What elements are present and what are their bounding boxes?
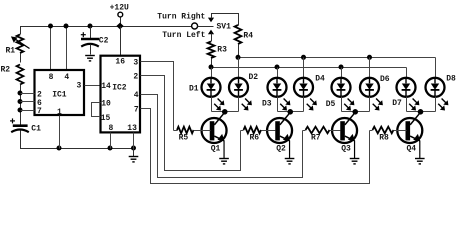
- svg-text:2: 2: [133, 72, 138, 81]
- op-amp IC1 timer box: [35, 70, 85, 115]
- node D4 label: [315, 75, 325, 84]
- node collector junction Q2: [287, 109, 293, 115]
- node D7 label: [392, 99, 402, 108]
- LED D7: [397, 78, 420, 111]
- node D3 label: [262, 100, 272, 109]
- svg-text:3: 3: [77, 82, 82, 91]
- resistor R8: [370, 127, 407, 143]
- svg-text:8: 8: [109, 124, 114, 133]
- svg-text:Turn Right: Turn Right: [157, 12, 205, 21]
- wire IC2 pin2 to R6: [141, 76, 241, 171]
- svg-text:C2: C2: [99, 37, 109, 46]
- svg-text:Q3: Q3: [341, 144, 351, 153]
- wire LED D3 cathode stub: [277, 97, 279, 112]
- node Turn Right label: [157, 12, 205, 21]
- switch SV1: [192, 14, 232, 42]
- svg-text:7: 7: [134, 105, 139, 114]
- wire D3-D4 cathode link: [278, 111, 304, 113]
- wire IC1 pin1 to ground rail: [59, 116, 61, 149]
- wire LED D2 anode stub: [238, 58, 240, 78]
- wire IC1 pin3 to IC2 pin14: [85, 85, 101, 87]
- pin labels IC2: [101, 57, 139, 133]
- wire LED D1 cathode stub: [211, 97, 213, 112]
- wire LED D8 anode stub: [435, 58, 437, 78]
- resistor R6: [241, 127, 276, 143]
- svg-text:R8: R8: [379, 133, 389, 142]
- svg-text:IC1: IC1: [52, 90, 67, 99]
- pin labels IC1: [37, 73, 82, 117]
- LED D5: [332, 78, 355, 111]
- node D6 label: [380, 75, 390, 84]
- wire R1 to R2: [20, 54, 22, 63]
- wire IC1 pin2 stub: [21, 93, 35, 95]
- svg-text:D3: D3: [262, 100, 272, 109]
- resistor R7: [303, 127, 341, 143]
- svg-text:D1: D1: [189, 84, 199, 93]
- wire D1-D2 cathode link: [212, 111, 239, 113]
- wire left-turn bus: [212, 67, 407, 69]
- svg-text:Q4: Q4: [407, 144, 417, 153]
- svg-text:D4: D4: [315, 75, 325, 84]
- wire LED D6 cathode stub: [369, 97, 371, 112]
- capacitor C2: [81, 27, 109, 47]
- resistor R4: [235, 25, 254, 44]
- wire D5-D6 cathode link: [342, 111, 370, 113]
- svg-text:4: 4: [64, 73, 69, 82]
- LED D4: [294, 78, 317, 111]
- wire LED D7 cathode stub: [406, 97, 408, 112]
- transistor Q4: [397, 112, 422, 158]
- ground under Q1: [219, 159, 229, 164]
- node pins 2-6-7 junction dots: [18, 91, 23, 113]
- wire LED D3 anode stub: [277, 68, 279, 78]
- svg-text:R5: R5: [179, 133, 189, 142]
- svg-text:14: 14: [101, 82, 111, 91]
- wire LED D5 anode stub: [341, 68, 343, 78]
- wire R4 to right bus: [238, 45, 240, 58]
- wire IC2 pins 10-15 jumper: [92, 103, 101, 117]
- svg-text:15: 15: [101, 114, 111, 123]
- svg-text:D6: D6: [380, 75, 390, 84]
- wire LED D4 cathode stub: [303, 97, 305, 112]
- ground under C2: [85, 45, 95, 61]
- svg-text:C1: C1: [31, 124, 41, 133]
- wire IC2 pin13 to ground rail: [133, 133, 135, 149]
- node collector junction Q1: [222, 109, 228, 115]
- svg-text:+12U: +12U: [110, 4, 129, 13]
- node left bus dots: [209, 65, 344, 70]
- wire LED D1 anode stub: [211, 68, 213, 78]
- node rail dots: [48, 24, 93, 29]
- svg-text:R2: R2: [1, 66, 11, 75]
- svg-text:Q2: Q2: [276, 144, 286, 153]
- wire LED D6 anode stub: [369, 58, 371, 78]
- op-amp IC2 counter box: [101, 56, 141, 133]
- wire IC1 pin4 to rail: [66, 27, 68, 71]
- transistor Q2: [267, 112, 292, 158]
- svg-text:D7: D7: [392, 99, 402, 108]
- svg-text:R1: R1: [6, 47, 16, 56]
- wire IC2 pin3 to R5: [141, 62, 174, 131]
- node collector junction Q4: [418, 109, 424, 115]
- transistor Q3: [332, 112, 357, 158]
- node +12V terminal: [110, 4, 129, 30]
- node D5 label: [326, 100, 336, 109]
- wire switch top throw to R4: [212, 14, 239, 26]
- wire LED D8 cathode stub: [435, 97, 437, 112]
- LED D6: [360, 78, 383, 111]
- svg-text:R6: R6: [250, 133, 260, 142]
- transistor Q1: [202, 112, 227, 158]
- svg-text:R3: R3: [217, 45, 227, 54]
- wire LED D2 cathode stub: [238, 97, 240, 112]
- wire IC1 pin7 stub: [21, 110, 35, 112]
- svg-text:D2: D2: [249, 73, 259, 82]
- svg-text:Turn Left: Turn Left: [162, 31, 205, 40]
- wire LED D5 cathode stub: [341, 97, 343, 112]
- wire IC2 pin8 to ground rail: [110, 133, 112, 149]
- wire IC2 pin16 to rail: [120, 27, 122, 56]
- svg-text:SV1: SV1: [217, 23, 232, 32]
- svg-text:1: 1: [57, 108, 62, 117]
- svg-text:IC2: IC2: [112, 83, 127, 92]
- wire LED D7 anode stub: [406, 68, 408, 78]
- wire R3 to left bus: [211, 59, 213, 68]
- wire IC2 pin7 to R8: [141, 109, 370, 184]
- ground under Q4: [415, 159, 425, 164]
- node right bus dots: [236, 55, 373, 60]
- svg-text:R7: R7: [311, 133, 321, 142]
- wire IC1 pin6 stub: [21, 101, 35, 103]
- svg-text:8: 8: [49, 73, 54, 82]
- resistor R3: [208, 42, 228, 59]
- ground under IC2: [129, 149, 139, 162]
- svg-text:16: 16: [115, 57, 125, 66]
- node Turn Left label: [162, 31, 205, 40]
- wire IC1 pin8 to rail: [50, 27, 52, 71]
- capacitor C1: [10, 118, 41, 133]
- wire +12V top rail: [21, 27, 192, 35]
- svg-text:13: 13: [127, 124, 137, 133]
- wire R2 down to C1: [20, 85, 22, 126]
- LED D8: [426, 78, 449, 111]
- LED D2: [229, 78, 252, 111]
- LED D3: [268, 78, 291, 111]
- node D1 label: [189, 84, 199, 93]
- node collector junction Q3: [352, 109, 358, 115]
- ground under Q2: [285, 159, 295, 164]
- svg-text:R4: R4: [243, 32, 253, 41]
- wire D7-D8 cathode link: [407, 111, 436, 113]
- resistor R1 (rheostat): [6, 35, 30, 56]
- ground under Q3: [350, 159, 360, 164]
- resistor R5: [174, 127, 211, 143]
- wire C1 to ground rail: [21, 131, 134, 149]
- node D8 label: [446, 75, 456, 84]
- svg-text:Q1: Q1: [211, 144, 221, 153]
- resistor R2: [1, 65, 24, 85]
- node D2 label: [249, 73, 259, 82]
- svg-text:7: 7: [37, 107, 42, 116]
- svg-text:4: 4: [134, 91, 139, 100]
- svg-text:D8: D8: [446, 75, 456, 84]
- svg-text:D5: D5: [326, 100, 336, 109]
- wire right-turn bus: [239, 57, 436, 59]
- node ground rail dots: [57, 146, 137, 151]
- wire IC2 pin4 to R7: [141, 95, 303, 178]
- wire LED D4 anode stub: [303, 58, 305, 78]
- LED D1: [202, 78, 225, 111]
- svg-text:10: 10: [101, 99, 111, 108]
- svg-text:3: 3: [133, 58, 138, 67]
